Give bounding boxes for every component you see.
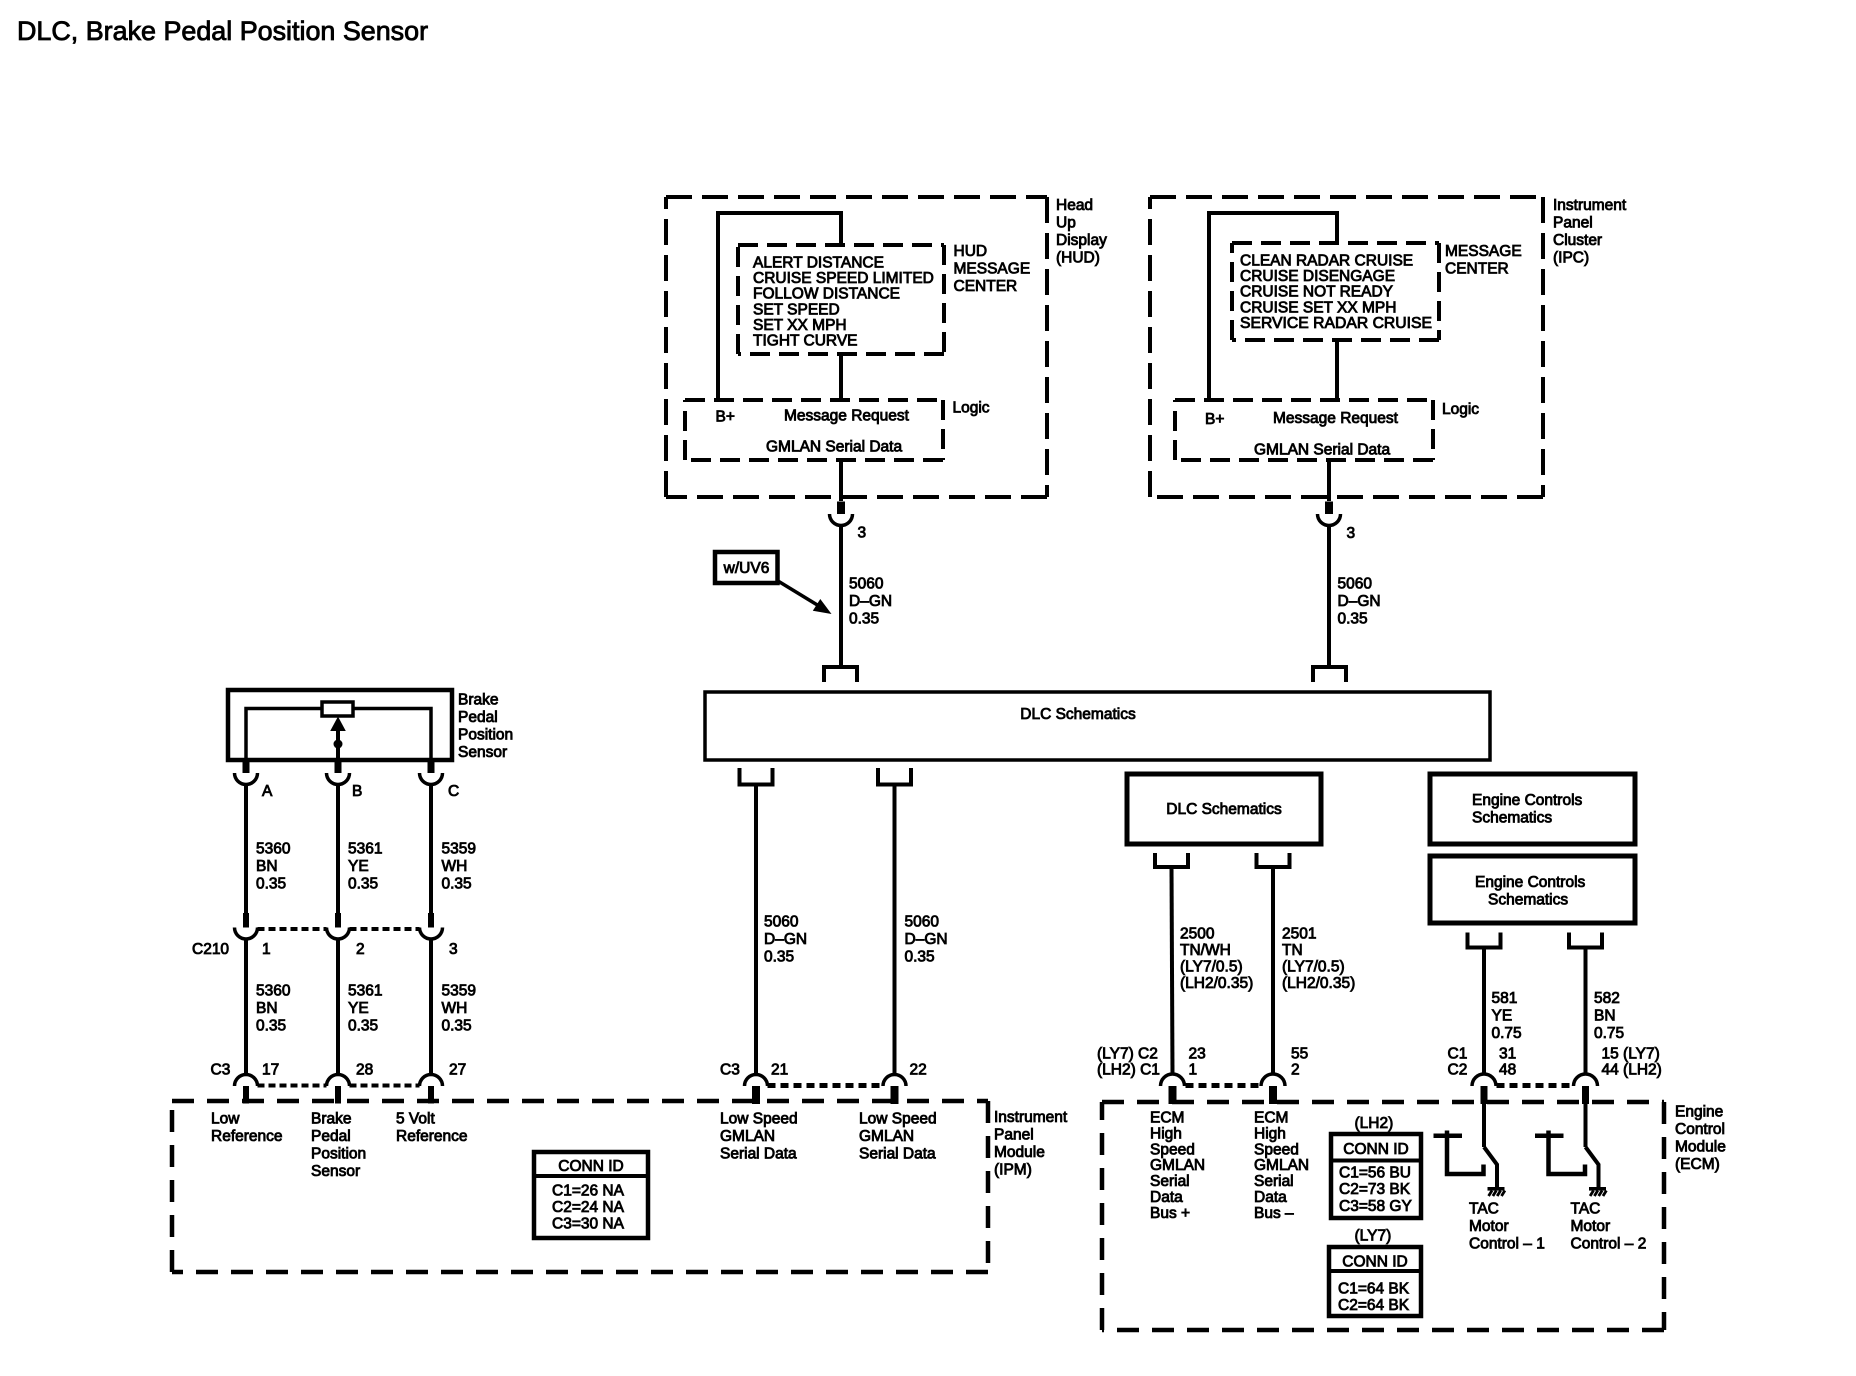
wire message request (IPC) bbox=[1335, 340, 1339, 400]
svg-text:GMLAN Serial Data: GMLAN Serial Data bbox=[766, 439, 902, 456]
svg-text:Message Request: Message Request bbox=[1273, 410, 1399, 427]
svg-text:2: 2 bbox=[356, 941, 365, 958]
connector pin C bbox=[420, 761, 443, 785]
svg-text:3: 3 bbox=[449, 941, 458, 958]
svg-text:w/UV6: w/UV6 bbox=[723, 560, 770, 577]
svg-text:C1C2: C1C2 bbox=[1448, 1046, 1468, 1079]
connector row dotted line 31/48-15/44 (ECM) bbox=[1497, 1083, 1574, 1088]
svg-text:C210: C210 bbox=[192, 941, 229, 958]
svg-text:CONN ID: CONN ID bbox=[1342, 1254, 1407, 1271]
svg-text:3148: 3148 bbox=[1499, 1046, 1516, 1079]
brake pedal position sensor box bbox=[228, 690, 452, 760]
svg-text:B+: B+ bbox=[716, 409, 735, 426]
wire 5060 D-GN (DLC to IPM pin 21) bbox=[754, 785, 758, 1075]
wire message request (HUD) bbox=[839, 354, 843, 400]
DLC Schematics bus box bbox=[705, 692, 1490, 760]
connector pin A bbox=[235, 761, 258, 785]
Engine Controls Schematics box 2 bbox=[1430, 856, 1635, 923]
wire 5361 YE upper bbox=[336, 785, 340, 914]
IPC message center box bbox=[1232, 243, 1439, 340]
svg-text:17: 17 bbox=[262, 1062, 279, 1079]
callout w/UV6 bbox=[715, 552, 832, 614]
wire 5060 D-GN (HUD to DLC) bbox=[839, 526, 843, 668]
connector C3 pin 27 (IPM) bbox=[420, 1075, 443, 1104]
connector row dotted line 17-28 bbox=[258, 1084, 327, 1088]
svg-text:CONN ID: CONN ID bbox=[558, 1158, 623, 1175]
connector C3 pin 21 (IPM) bbox=[745, 1075, 768, 1105]
svg-text:DLC, Brake Pedal Position Sens: DLC, Brake Pedal Position Sensor bbox=[17, 16, 428, 46]
connector pin B bbox=[327, 761, 350, 785]
svg-text:(LY7): (LY7) bbox=[1355, 1228, 1392, 1245]
IPC logic box bbox=[1175, 400, 1433, 460]
terminal bracket below engine controls box (582 wire) bbox=[1569, 933, 1602, 948]
potentiometer wiper arrow bbox=[330, 717, 346, 761]
connector ECM pin 55/2 bbox=[1261, 1074, 1285, 1104]
connector ECM pin 15/44 bbox=[1574, 1074, 1598, 1104]
connector ECM pin 31/48 bbox=[1472, 1074, 1496, 1104]
terminal bracket at DLC schematics (HUD wire) bbox=[824, 667, 857, 682]
svg-text:DLC Schematics: DLC Schematics bbox=[1020, 706, 1136, 723]
svg-text:C: C bbox=[448, 783, 459, 800]
svg-text:Logic: Logic bbox=[953, 400, 990, 417]
svg-text:27: 27 bbox=[449, 1062, 466, 1079]
svg-text:B: B bbox=[352, 783, 362, 800]
svg-text:A: A bbox=[262, 783, 273, 800]
wire TAC motor control 2 (ECM internal) bbox=[1584, 1104, 1588, 1148]
svg-text:22: 22 bbox=[910, 1062, 927, 1079]
terminal bracket below DLC schematics (right) bbox=[878, 768, 911, 785]
connector row dotted line 1-2 (ECM) bbox=[1186, 1083, 1261, 1088]
svg-text:1: 1 bbox=[262, 941, 271, 958]
instrument panel module (IPM) box bbox=[172, 1101, 988, 1272]
connector C3 pin 22 (IPM) bbox=[883, 1075, 906, 1105]
wire B+ to HUD message center bbox=[718, 213, 841, 400]
svg-text:C3: C3 bbox=[720, 1062, 740, 1079]
potentiometer body bbox=[322, 702, 353, 716]
svg-text:C1=56 BUC2=73 BKC3=58 GY: C1=56 BUC2=73 BKC3=58 GY bbox=[1339, 1165, 1412, 1216]
switch TAC motor control 2 bbox=[1586, 1147, 1599, 1188]
TAC motor 1 fixed contact bracket bbox=[1434, 1131, 1484, 1175]
wire 5359 WH lower bbox=[429, 939, 433, 1075]
svg-text:CONN ID: CONN ID bbox=[1343, 1141, 1408, 1158]
terminal bracket below DLC schematics box (pin 55/2 wire) bbox=[1257, 853, 1290, 867]
svg-text:Logic: Logic bbox=[1442, 401, 1479, 418]
svg-text:15 (LY7)44 (LH2): 15 (LY7)44 (LH2) bbox=[1602, 1046, 1662, 1079]
svg-text:3: 3 bbox=[858, 525, 867, 542]
connector ECM pin 23/1 bbox=[1161, 1074, 1185, 1104]
instrument panel cluster (IPC) module box bbox=[1150, 197, 1543, 497]
HUD message center box bbox=[738, 245, 944, 354]
wire 5361 YE lower bbox=[336, 939, 340, 1075]
switch TAC motor control 1 bbox=[1484, 1147, 1497, 1188]
svg-text:B+: B+ bbox=[1205, 411, 1224, 428]
TAC motor 2 fixed contact bracket bbox=[1535, 1131, 1585, 1175]
connector row dashed line C210 1-2 bbox=[258, 927, 327, 931]
connector C210 pin 1 bbox=[235, 913, 258, 939]
svg-text:28: 28 bbox=[356, 1062, 373, 1079]
svg-text:EngineControlModule(ECM): EngineControlModule(ECM) bbox=[1675, 1104, 1726, 1174]
wire 5360 BN upper bbox=[244, 785, 248, 914]
DLC Schematics box (right) bbox=[1127, 774, 1321, 844]
wire TAC motor control 1 (ECM internal) bbox=[1482, 1104, 1486, 1148]
svg-text:C1=64 BKC2=64 BK: C1=64 BKC2=64 BK bbox=[1338, 1281, 1410, 1315]
connector row dotted line 21-22 bbox=[768, 1083, 884, 1088]
terminal bracket below DLC schematics (left) bbox=[740, 768, 773, 785]
connector C210 pin 3 bbox=[420, 913, 443, 939]
head up display (HUD) module box bbox=[666, 197, 1047, 497]
wire 5360 BN lower bbox=[244, 939, 248, 1075]
wire B+ to IPC message center bbox=[1209, 213, 1337, 400]
wire 5060 D-GN (IPC to DLC) bbox=[1327, 526, 1331, 668]
wire GMLAN serial data out of IPC bbox=[1327, 460, 1331, 501]
terminal bracket below DLC schematics box (pin 23/1 wire) bbox=[1155, 853, 1188, 867]
wire 5060 D-GN (DLC to IPM pin 22) bbox=[893, 785, 897, 1075]
Engine Controls Schematics box 1 bbox=[1430, 774, 1635, 844]
wire 581 YE bbox=[1482, 948, 1486, 1075]
terminal bracket below engine controls box (581 wire) bbox=[1468, 933, 1501, 948]
svg-text:Message Request: Message Request bbox=[784, 408, 910, 425]
wire GMLAN serial data out of HUD bbox=[839, 460, 843, 501]
ground (TAC motor 1) bbox=[1488, 1187, 1505, 1196]
connector row dotted line 28-27 bbox=[350, 1084, 420, 1088]
CONN ID table (LH2) bbox=[1331, 1134, 1421, 1218]
connector C210 pin 2 bbox=[327, 913, 350, 939]
wire 2501 TN bbox=[1271, 867, 1275, 1075]
wire 2500 TN/WH bbox=[1172, 867, 1173, 1075]
wire 5359 WH upper bbox=[429, 785, 433, 914]
engine control module (ECM) box bbox=[1102, 1102, 1664, 1330]
terminal bracket at DLC schematics (IPC wire) bbox=[1313, 667, 1346, 682]
svg-text:(LH2): (LH2) bbox=[1355, 1115, 1394, 1132]
CONN ID table (IPM) bbox=[534, 1152, 648, 1238]
svg-text:C3: C3 bbox=[211, 1062, 231, 1079]
connector row dashed line C210 2-3 bbox=[350, 927, 420, 931]
svg-text:DLC Schematics: DLC Schematics bbox=[1166, 801, 1282, 818]
connector pin 3 (HUD) bbox=[830, 502, 853, 526]
svg-text:GMLAN Serial Data: GMLAN Serial Data bbox=[1254, 442, 1390, 459]
connector C3 pin 28 (IPM) bbox=[327, 1075, 350, 1104]
HUD logic box bbox=[685, 400, 943, 460]
connector pin 3 (IPC) bbox=[1318, 502, 1341, 526]
ground (TAC motor 2) bbox=[1589, 1187, 1606, 1196]
connector C3 pin 17 (IPM) bbox=[235, 1075, 258, 1104]
potentiometer track and end legs bbox=[246, 709, 431, 761]
CONN ID table (LY7) bbox=[1329, 1247, 1421, 1316]
svg-text:(LY7) C2(LH2) C1: (LY7) C2(LH2) C1 bbox=[1097, 1046, 1160, 1079]
svg-text:3: 3 bbox=[1347, 525, 1356, 542]
wire 582 BN bbox=[1584, 948, 1588, 1075]
svg-text:C1=26 NAC2=24 NAC3=30 NA: C1=26 NAC2=24 NAC3=30 NA bbox=[552, 1183, 625, 1233]
svg-text:21: 21 bbox=[771, 1062, 788, 1079]
